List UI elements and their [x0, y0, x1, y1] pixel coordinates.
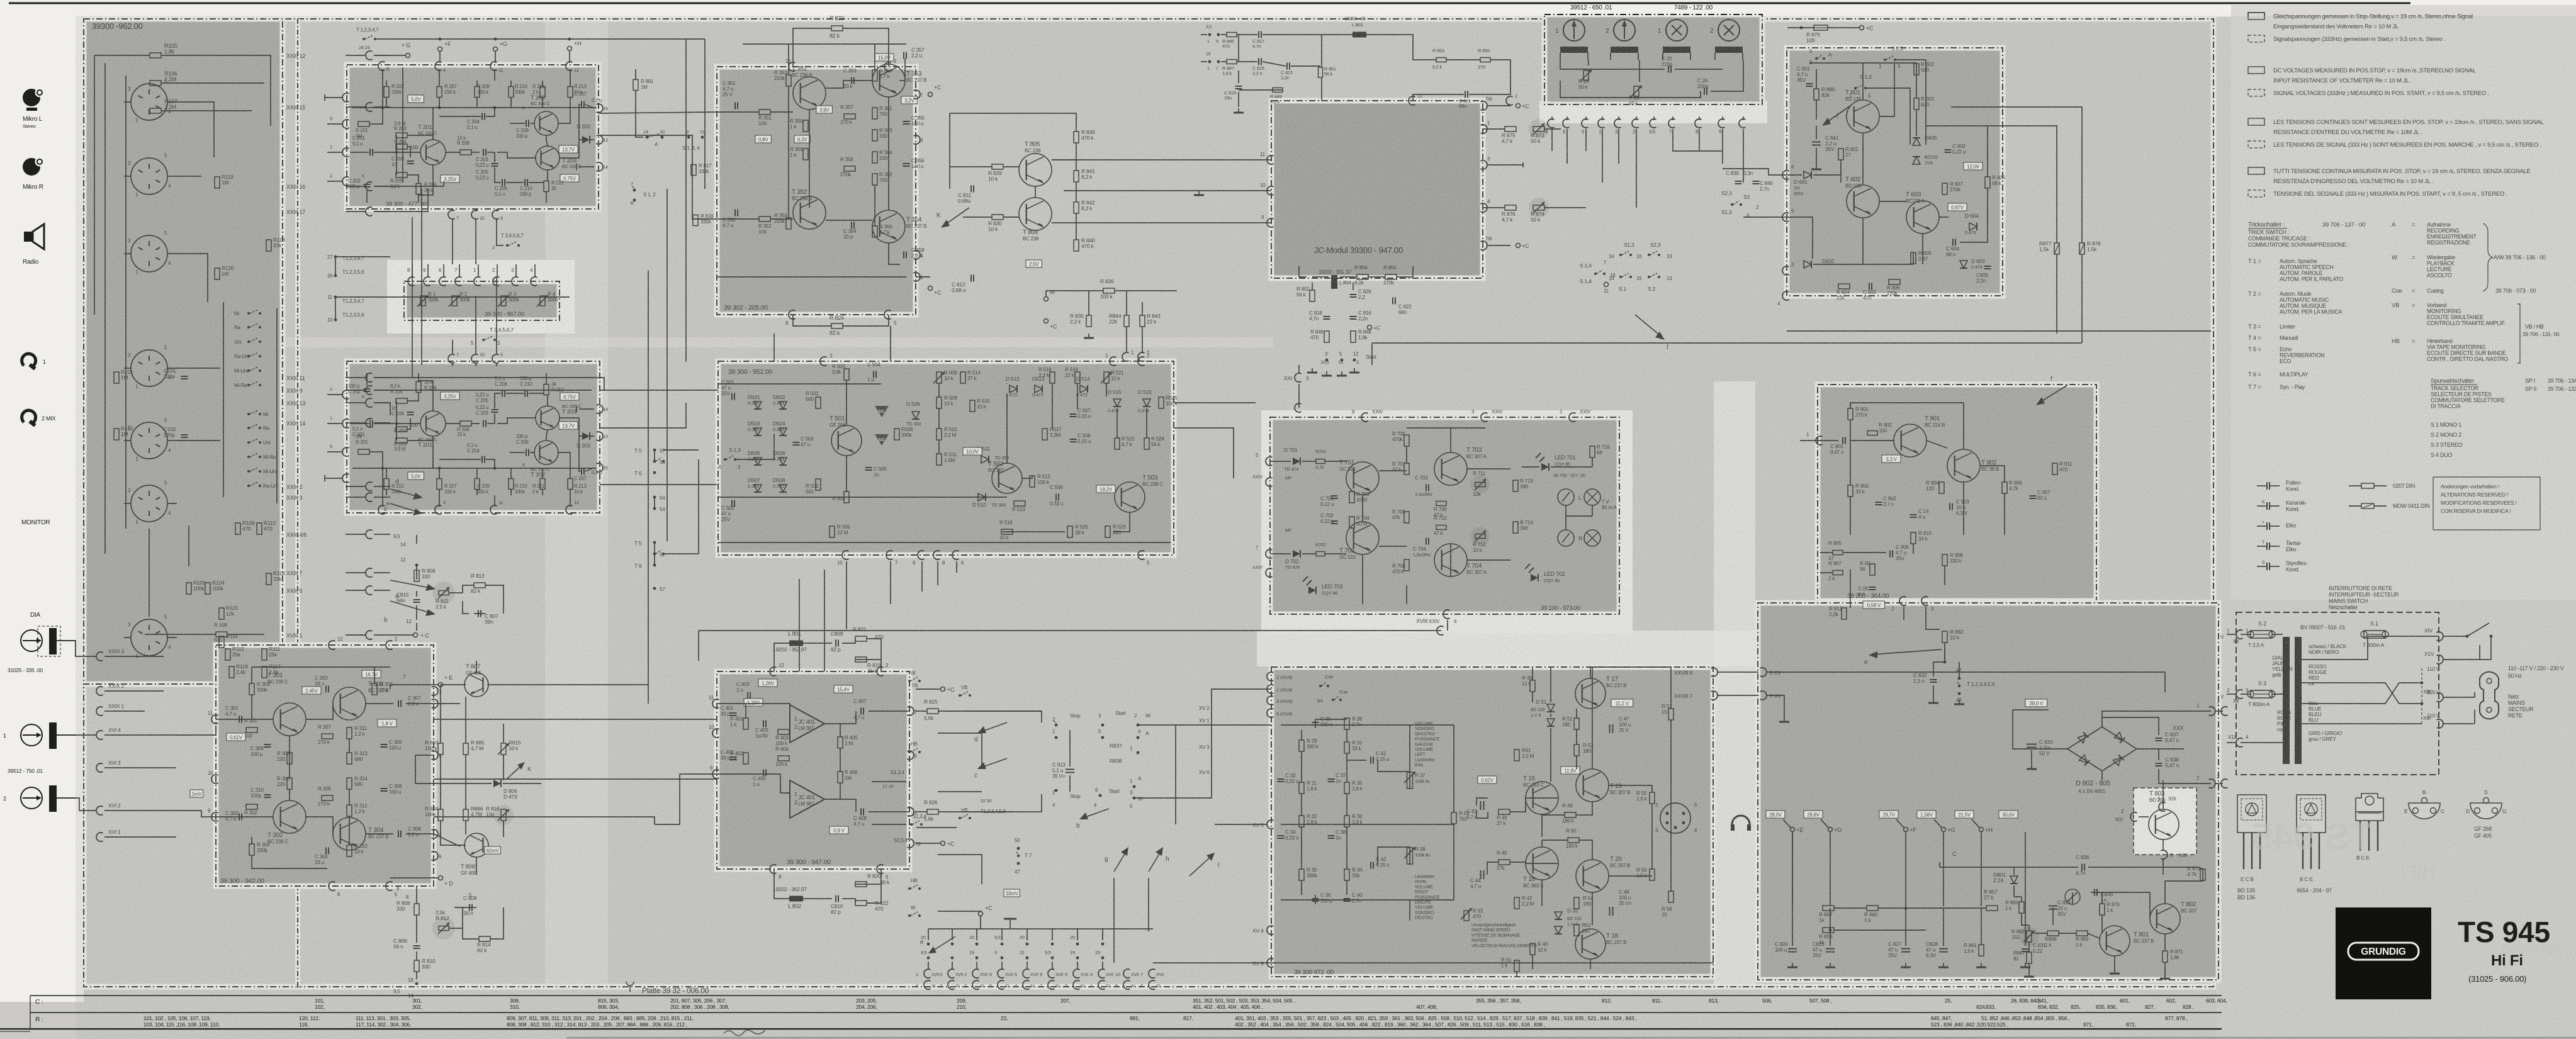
switch matrix W HB VB [908, 680, 911, 682]
long wire XV row [1153, 962, 1713, 963]
module preamp lower [347, 361, 600, 513]
supply terminal +E [1766, 811, 1785, 818]
connector XXIX 3 [96, 652, 103, 661]
resistor R601 [1838, 149, 1843, 160]
resistor R 213 (B) [568, 87, 573, 98]
resistor R208 (D) [460, 421, 471, 426]
resistor R203 (B) [396, 133, 407, 138]
diode D508 [779, 485, 787, 492]
connector XXVIII 8 [1711, 668, 1718, 677]
resistor R606 [1985, 177, 1990, 188]
aux connector socket 2 [131, 485, 167, 522]
resistor R11 [1299, 782, 1304, 794]
resistor R880 [1814, 89, 1819, 100]
connector JC 4 [1481, 203, 1487, 212]
connector pin 6 mid [492, 210, 498, 219]
resistor R49 [1565, 812, 1576, 817]
block C connector row [408, 277, 414, 286]
module 39300-967.00 (level pots) [404, 281, 560, 320]
lamp R [1584, 530, 1600, 546]
capacitor C904 [1910, 514, 1917, 515]
capacitor C201 (B) [369, 149, 371, 156]
resistor R 209 (D) [475, 479, 480, 490]
resistor R306 [287, 778, 292, 789]
resistor R713 [1513, 480, 1518, 491]
bus G right to L [1174, 402, 1256, 403]
resistor R513 [1014, 501, 1025, 506]
connector XXIII 7 [366, 568, 372, 577]
capacitor C603 [1945, 149, 1952, 150]
fuse R879 [1814, 25, 1828, 30]
svg-text:806, 304,: 806, 304, [598, 1004, 619, 1010]
resistor R842 [1074, 202, 1079, 213]
terminal +G top [406, 53, 410, 58]
schematic inner paper [84, 19, 2213, 987]
head symbol 1 arrow [1563, 20, 1585, 41]
capacitor C202 (D) [364, 388, 371, 390]
resistor R605 [1911, 252, 1916, 264]
svg-text:881,: 881, [1130, 1015, 1140, 1021]
wire L802 loop [774, 869, 790, 899]
long wire f bus [1787, 330, 2211, 332]
terminal +F [438, 47, 442, 52]
transistor T351 [793, 77, 826, 110]
resistor R869 [2076, 931, 2088, 936]
connector XXVIII group [1267, 672, 1273, 681]
capacitor C821 [1465, 91, 1466, 98]
white frame around 39100-973.00 [1261, 410, 1633, 633]
transistor T501 [831, 425, 862, 456]
diode D511 [981, 456, 989, 463]
resistor R849 [1273, 88, 1283, 93]
svg-text:203, 205,: 203, 205, [856, 997, 877, 1004]
svg-text:202, 808 , 306 , 208 , 308,: 202, 808 , 306 , 208 , 308, [670, 1004, 729, 1010]
AW bracket [2483, 223, 2493, 291]
resistor R42 [1514, 897, 1519, 909]
arrow b2 [1083, 809, 1109, 818]
arrows g h l mid [1114, 851, 1127, 872]
wires T805 T804 [1003, 166, 1019, 167]
svg-text:103, 104, 115 ,116, 108 ,109,: 103, 104, 115 ,116, 108 ,109, 110, [143, 1021, 220, 1028]
volume pot R37 [1407, 772, 1413, 789]
voltage box 3,9V F [816, 106, 832, 113]
svg-text:602,: 602, [2166, 997, 2176, 1004]
resistor R 202 (B) [384, 87, 389, 98]
resistor R364 [872, 152, 877, 163]
resistor R52 [1574, 924, 1579, 936]
capacitor C44 [1480, 870, 1482, 879]
block M left connector [1816, 436, 1822, 445]
long vertical bus x1060 [666, 189, 668, 541]
transformer dashed box [2236, 612, 2439, 775]
capacitor C210 (D) [524, 390, 526, 397]
svg-text:2: 2 [3, 795, 6, 802]
resistor R843 [1140, 315, 1145, 327]
voltage box 10,0V G [963, 447, 982, 455]
resistor R308 [322, 795, 333, 800]
head coil 2 x [1715, 47, 1743, 53]
resistor R844 [1124, 315, 1129, 327]
dashed link DIA [38, 626, 60, 656]
meter R [1558, 530, 1574, 546]
R819 resistor [855, 657, 867, 662]
thermistor symbol [2065, 889, 2080, 904]
resistor R406 [838, 772, 843, 783]
capacitor C209 (D) [526, 449, 527, 456]
resistor R105 [150, 53, 161, 58]
legend box solid 1 [2248, 13, 2264, 20]
block L bottom connector [1443, 610, 1449, 619]
resistor R361 [872, 108, 877, 119]
fuse S3 [2247, 690, 2275, 698]
wire B drop (B) [382, 69, 383, 108]
DIN output socket [1660, 803, 1690, 833]
resistor R882 [1942, 631, 1947, 643]
grundig logo [2348, 943, 2419, 960]
svg-text:118,: 118, [299, 1021, 308, 1028]
transistor T807 [464, 673, 488, 697]
module 39300-942.00 (T301 playback) [216, 645, 434, 886]
terminal +C xvii [979, 912, 983, 916]
capacitor C203 (D) [483, 420, 484, 427]
capacitor C202 (B) [364, 184, 371, 185]
svg-text:601,: 601, [2120, 997, 2130, 1004]
transistor T202 (B) [534, 111, 558, 135]
resistor R813 [474, 583, 485, 588]
svg-text:TS 945: TS 945 [2252, 816, 2373, 858]
long wire XVIII horizontal [699, 630, 1441, 631]
mic connector socket 1 [131, 84, 167, 120]
handwriting mark bottom [724, 1030, 765, 1036]
svg-text:871,: 871, [2083, 1021, 2093, 1028]
resistor R856 [1385, 274, 1397, 279]
block E wiring [216, 719, 273, 720]
capacitor C825 [1826, 948, 1835, 950]
voltage box 3,25V (B) [441, 175, 459, 183]
resistor R817 [691, 165, 696, 176]
capacitor C818 [1324, 316, 1330, 317]
connector pin 14 (D) [597, 405, 603, 413]
voltage box 16,7V [362, 670, 381, 678]
resistor R877 [2054, 243, 2059, 254]
switch contact Uni (2) [247, 441, 250, 444]
legend box dashed 2 [2248, 89, 2264, 96]
conn XIV right [2437, 632, 2443, 641]
bus wire A right to D [374, 378, 604, 390]
socket pins 7 [138, 631, 143, 634]
switch contact Mi [247, 312, 250, 315]
svg-text:Radio: Radio [23, 259, 39, 266]
wire mid linkage [452, 219, 453, 264]
resistor R 207 (D) [437, 479, 442, 490]
capacitor C827 [1901, 948, 1910, 950]
wire R 213 leads (D) [570, 489, 571, 495]
svg-text:817,: 817, [1183, 1015, 1193, 1021]
transistor T801 [2100, 926, 2130, 956]
resistor R39 [1344, 718, 1349, 729]
resistor R303 [249, 683, 254, 695]
capacitor C704 [1426, 538, 1427, 545]
arrow f [1635, 315, 1662, 337]
module heads 39512-650.01 [1544, 14, 1762, 104]
resistor R855 [1480, 58, 1490, 62]
capacitor C808 [469, 904, 470, 911]
diode D605a [1913, 138, 1920, 145]
resistor R40 [1499, 860, 1510, 865]
resistor R206 (B) [416, 184, 421, 194]
svg-text:808, 308 , 812, 310 , 312 ,: 808, 308 , 812, 310 , 312 , 314, 813 , 2… [507, 1021, 687, 1028]
svg-text:39512 - 750 .01: 39512 - 750 .01 [8, 768, 43, 774]
wire bus block A [104, 63, 106, 554]
resistor R867 [2027, 952, 2032, 963]
resistor R870 [2100, 904, 2105, 915]
resistor R307 [322, 734, 333, 739]
socket pins 6 [138, 497, 143, 500]
voltage box 2,5V [1026, 260, 1042, 267]
svg-text:201, 807, 305, 206 , 307,: 201, 807, 305, 206 , 307, [670, 997, 726, 1004]
resistor R909 [1870, 564, 1875, 575]
transistor T804 [1019, 198, 1052, 230]
resistor R508 [936, 372, 942, 383]
secondary winding bar [2295, 637, 2302, 764]
icon tape in 2 [21, 787, 42, 809]
socket pins 4 [138, 362, 143, 364]
capacitor C826 [1350, 294, 1357, 295]
diode D604 [1969, 223, 1977, 230]
module power supply [1758, 603, 2219, 980]
capacitor C357 [903, 52, 904, 59]
resistor R509 [936, 397, 942, 408]
transistor T303 [333, 687, 366, 720]
conn XIII right [2437, 693, 2443, 702]
capacitor C817 [1258, 31, 1259, 38]
white strip under heads [1539, 101, 1767, 123]
svg-text:813,: 813, [1709, 997, 1719, 1004]
trim pot R62 [1464, 911, 1469, 921]
head trimmer R25 [1583, 70, 1589, 81]
transistor T503 [1115, 482, 1145, 512]
capacitor C806 [413, 945, 420, 946]
diode D501 [754, 402, 762, 409]
package round B [2404, 789, 2444, 819]
terminal W mid [1044, 297, 1049, 301]
mains switch symbol [2467, 623, 2489, 636]
resistor R50 [1568, 838, 1579, 843]
resistor R818 [693, 215, 698, 226]
connector pin 9 (B) [342, 120, 349, 128]
svg-text:120, 112,: 120, 112, [299, 1015, 320, 1021]
legend lighter paper [2231, 5, 2576, 600]
resistor R204 (B) [396, 144, 407, 149]
resistor R45 [1530, 680, 1535, 692]
LED 702 [1531, 574, 1538, 581]
L801 inductor [789, 641, 803, 646]
fold band horizontal [84, 337, 1273, 347]
capacitor C208 (D) [407, 412, 414, 413]
capacitor C309 [264, 744, 271, 745]
resistor R113 [266, 240, 271, 251]
terminal +C topright [1860, 26, 1864, 30]
resistor R835 [1086, 315, 1091, 327]
voltage box 3,25V (D) [441, 392, 459, 400]
capacitor C310 [264, 794, 271, 795]
resistor R58 [1668, 891, 1673, 902]
diode D502 [779, 402, 787, 409]
wires R808 cluster [416, 886, 417, 904]
resistor R354 [786, 218, 791, 229]
transistor T201 (D) [420, 411, 446, 436]
block M bottom connectors [1899, 597, 1906, 605]
volume pot R38 [1407, 848, 1413, 864]
resistor R903 [1848, 485, 1853, 497]
resistor R204 (D) [396, 427, 407, 432]
capacitor C204 (B) [481, 113, 483, 120]
resistor R55 [1650, 792, 1655, 804]
icon DIA connector [21, 630, 42, 651]
diode D203 (B) [582, 136, 590, 143]
resistor R604 [1838, 284, 1850, 289]
wire stopstart vertical [1069, 730, 1071, 767]
capacitor C901 [1842, 437, 1843, 444]
package round S [2466, 789, 2506, 819]
long wire to JC 9 [1052, 222, 1271, 223]
svg-text:(31025 - 906.00): (31025 - 906.00) [2468, 974, 2526, 984]
fuse S2 [2247, 631, 2275, 638]
svg-text:GRUNDIG: GRUNDIG [2361, 946, 2406, 957]
resistor R115 [219, 608, 224, 619]
svg-text:207,: 207, [1060, 997, 1071, 1004]
capacitor C37 [1328, 778, 1335, 780]
transistor T603 [1906, 201, 1939, 233]
module 39300-364.00 (T901) [1818, 385, 2096, 601]
resistor R846 [1324, 331, 1329, 342]
capacitor C355 [903, 121, 910, 122]
trimmer R 1 [420, 296, 425, 306]
resistor R516 [1001, 529, 1013, 534]
resistor R360 [872, 226, 877, 237]
head block wiring [1560, 60, 1665, 69]
svg-text:MONITOR: MONITOR [21, 519, 50, 526]
resistor R 207 (B) [437, 87, 442, 98]
trim resistor R712 [1475, 534, 1485, 539]
capacitor C834 [2049, 906, 2057, 907]
capacitor C702 [1331, 520, 1338, 522]
svg-text:302,: 302, [412, 1004, 422, 1010]
transistor T902 [1947, 449, 1980, 482]
connector XXIII 3 [366, 493, 372, 502]
connector row XVII [924, 969, 930, 978]
XV connector labels right [1267, 820, 1273, 829]
capacitor C408 [860, 809, 862, 816]
connector pin 13 (D) [597, 432, 603, 441]
capacitor C812 [970, 275, 972, 282]
wires R877 R878 [1926, 126, 2057, 243]
voltage box 15,0V F [875, 53, 894, 61]
diode D806 [493, 780, 501, 787]
connector JC 1 [1481, 125, 1487, 133]
resistor R907 [1833, 571, 1843, 575]
wire R879 left [1787, 27, 1814, 28]
capacitor C819 [1235, 86, 1242, 87]
trimmer R 4 [540, 296, 545, 306]
resistor R857a [1823, 906, 1834, 911]
svg-text:301,: 301, [412, 997, 422, 1004]
switch contact Ra-Uni (2) [247, 485, 250, 487]
resistor R116 [219, 636, 224, 648]
top white strip [0, 0, 2576, 17]
resistor R313 [347, 753, 352, 764]
head symbol 1 x [1666, 20, 1687, 41]
capacitor C207 (D) [581, 468, 582, 475]
svg-text:811,: 811, [1652, 997, 1662, 1004]
voltage box 0,75V (D) [560, 393, 579, 400]
connector pin B/3 left (B) [342, 93, 349, 102]
bus B to F [599, 112, 717, 113]
connector pin 2 (B) [342, 177, 349, 186]
terminal +C H top [941, 687, 945, 692]
transistor T353 [872, 64, 905, 97]
resistor R876 [1505, 205, 1516, 210]
resistor R212 (D) [544, 385, 549, 395]
block O bridge wiring [2013, 710, 2067, 749]
wires R845 cluster [1221, 34, 1227, 35]
mains plug [2480, 672, 2499, 719]
capacitor C602 [1869, 283, 1870, 290]
1mV box [190, 790, 203, 797]
resistor R912 [1842, 608, 1847, 619]
capacitor C816 [1350, 316, 1357, 317]
resistor R840 [1074, 240, 1079, 251]
capacitor C354 [851, 222, 852, 229]
block G wiring [718, 383, 881, 385]
transistor T704 [1434, 544, 1467, 576]
aux connector socket 1 [131, 422, 167, 459]
wire R 207 leads (D) [439, 489, 440, 495]
trim resistor R815 [501, 743, 506, 755]
fold band vertical left [545, 19, 608, 987]
capacitor C601 [1806, 83, 1813, 84]
capacitor C41 [1370, 757, 1371, 764]
resistor R881 [633, 80, 638, 91]
head coil 1 arrow [1560, 47, 1588, 53]
resistor R523 [1105, 526, 1110, 537]
resistor R901 [1848, 408, 1853, 420]
arrow d [390, 489, 420, 497]
supply terminal +H [1955, 811, 1974, 818]
block L top connectors [1361, 413, 1368, 422]
wires XVII verticals [928, 929, 929, 940]
resistor R31 [1344, 742, 1349, 753]
capacitor C839 [1735, 181, 1742, 182]
svg-text:523 , 836 ,840 ,842 ,520,522,5: 523 , 836 ,840 ,842 ,520,522,525 , [1931, 1021, 2008, 1028]
voltage box 5,0V (B) [408, 95, 424, 103]
connector pin 7 mid [448, 210, 454, 219]
table left line [30, 996, 31, 1029]
connector XXIII 11 [366, 373, 372, 382]
legend box solid 2 [2248, 67, 2264, 74]
R825 resistor [927, 709, 938, 714]
resistor R302 [246, 804, 257, 809]
transistor T201 (B) [420, 140, 446, 165]
conn X11 4 [2236, 738, 2242, 747]
capacitor C902 [1876, 502, 1882, 503]
capacitor C101 [181, 376, 188, 377]
capacitor C906 [1889, 551, 1891, 558]
resistor R814 [479, 936, 490, 941]
resistor R714 [1513, 522, 1518, 533]
wire R 210 leads (D) [510, 489, 512, 495]
svg-text:7489 - 122 .00: 7489 - 122 .00 [1674, 4, 1713, 11]
